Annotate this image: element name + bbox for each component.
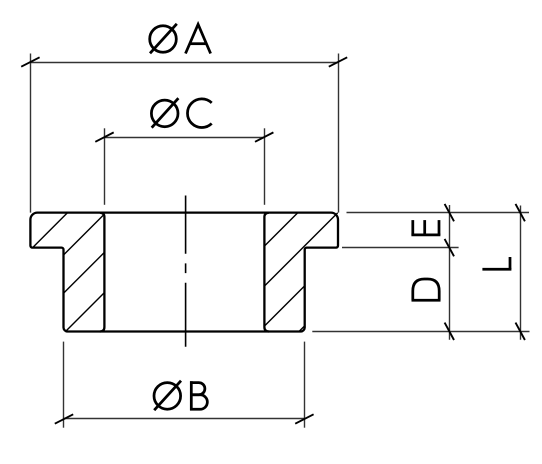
hatch left wall (20, 119, 200, 378)
label E (rotated) (411, 220, 440, 235)
tick L bottom (516, 323, 525, 340)
extension line mid right (flange bottom) (342, 247, 459, 249)
hatch right wall (250, 111, 400, 381)
tick A left (21, 57, 39, 66)
dimension line E-D (449, 205, 451, 340)
extension line dim B left (63, 342, 65, 428)
label ØC (151, 98, 211, 128)
label D (rotated) (412, 279, 441, 300)
tick A right (329, 57, 347, 66)
label L (rotated) (482, 257, 511, 269)
dimension line A (31, 62, 339, 64)
label ØB (154, 381, 207, 411)
tick E top (445, 204, 454, 221)
center line (185, 196, 187, 347)
tick C left (95, 132, 113, 141)
extension line dim B right (304, 342, 306, 428)
bore right edge (264, 213, 269, 332)
dimension line C (105, 137, 265, 139)
tick B right (295, 414, 313, 423)
label ØA (150, 24, 211, 54)
dimension line B (64, 418, 305, 420)
extension line dim C left (104, 128, 106, 205)
extension line dim C right (264, 128, 266, 205)
tick L top (516, 204, 525, 221)
extension line top right (flange top) (347, 212, 530, 214)
tick D bottom (445, 323, 454, 340)
tick C right (255, 132, 273, 141)
tick B left (55, 414, 73, 423)
extension line bottom right (body bottom) (312, 331, 529, 333)
dimension line L (520, 206, 522, 340)
tick E bottom / D top (445, 239, 454, 256)
grommet outer profile (30, 213, 338, 332)
extension line dim A left (30, 54, 32, 213)
bore left edge (100, 213, 105, 332)
extension line dim A right (338, 54, 340, 213)
